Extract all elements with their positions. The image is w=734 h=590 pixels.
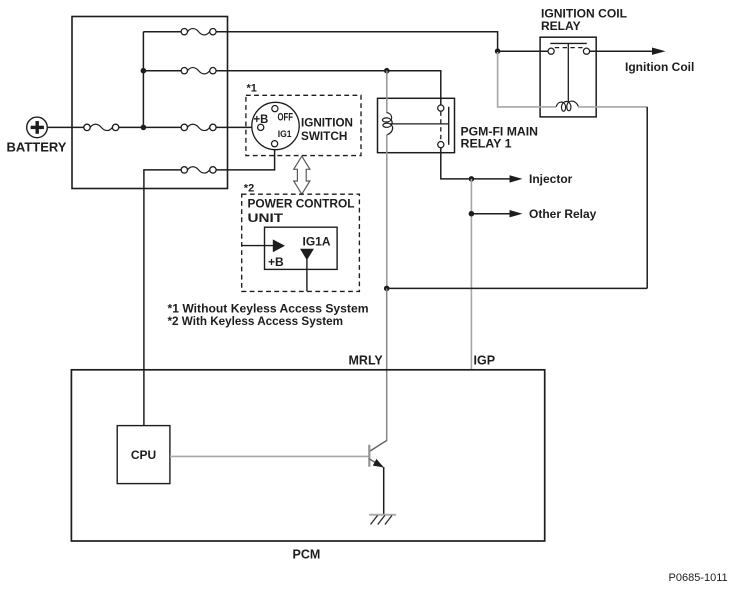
wire row4 left corner down to CPU: [144, 170, 181, 426]
terminal +B: [258, 124, 264, 130]
relay RY1 coil L1: [382, 113, 392, 135]
fuse F2 (battery row right): [181, 124, 216, 130]
relay RY2 contact right: [583, 48, 589, 54]
wire coil feed (gray) from junction into relay: [386, 71, 388, 113]
ground G1: [369, 515, 396, 525]
wire coil bottom to MRLY node (gray): [386, 134, 388, 288]
node MRLY junction: [384, 286, 390, 292]
wire battery to fuse box: [47, 126, 84, 128]
relay RY1 link coil to armature: [390, 123, 449, 125]
double arrow between ignition switch and power control unit: [294, 156, 310, 194]
node other relay junction: [469, 211, 475, 217]
wire MRLY down to transistor collector (gray): [386, 288, 388, 440]
battery B1: [27, 117, 48, 138]
wire battery row inside box: [119, 126, 181, 128]
svg-text:+B: +B: [268, 255, 284, 269]
svg-text:UNIT: UNIT: [248, 211, 284, 225]
fuse F3 (row 1): [181, 29, 216, 35]
relay RY1 contact bottom: [438, 142, 444, 148]
svg-text:POWER CONTROL: POWER CONTROL: [248, 197, 355, 211]
CPU box: [117, 426, 170, 484]
svg-text:RELAY: RELAY: [541, 19, 581, 33]
wire row2 to PGM-FI relay contact: [216, 71, 441, 106]
wire MRLY horizontal: [387, 287, 648, 289]
svg-text:PCM: PCM: [293, 548, 321, 562]
node injector junction: [469, 176, 475, 182]
wire relay output to ignition coil arrow: [589, 50, 653, 52]
fuse F4 (row 2): [181, 68, 216, 74]
wire relay output to injector node: [441, 148, 469, 179]
relay RY2 coil L2: [556, 101, 578, 111]
PGM-FI main relay RY1 box: [378, 98, 455, 152]
node PGM-FI relay feed junction: [384, 68, 390, 74]
arrow ignition coil: [652, 48, 666, 55]
svg-text:IG1A: IG1A: [303, 234, 331, 248]
node row2 junction: [141, 68, 147, 74]
wire coil feed (gray) down and right to coil: [498, 52, 556, 107]
wire +B input: [242, 245, 274, 247]
relay RY1 armature bar: [448, 107, 450, 145]
relay RY1 contact top: [438, 105, 444, 111]
svg-text:MRLY: MRLY: [349, 353, 384, 367]
wire battery row to ignition switch +B: [216, 126, 258, 128]
arrow other relay: [510, 210, 523, 217]
relay RY2 contact dashed line: [555, 47, 584, 49]
wire row4 from IG1 fuse column down to PCM CPU: [216, 147, 275, 170]
svg-text:BATTERY: BATTERY: [7, 140, 67, 155]
relay RY2 link armature to coil: [567, 43, 569, 101]
fuse box (under-hood fuse/relay box): [72, 17, 228, 189]
power control unit inner module U2: [265, 227, 338, 269]
PCM box: [71, 370, 544, 541]
terminal IG1: [272, 141, 278, 147]
svg-text:Other Relay: Other Relay: [529, 207, 597, 221]
svg-text:RELAY 1: RELAY 1: [461, 137, 512, 151]
power control unit dashed box *2: [242, 194, 360, 291]
svg-text:*2: *2: [244, 182, 254, 194]
node ignition relay feed junction: [495, 48, 501, 54]
svg-text:*2 With Keyless Access System: *2 With Keyless Access System: [168, 314, 344, 328]
wire emitter to ground: [383, 467, 385, 515]
svg-text:IGP: IGP: [474, 353, 496, 367]
svg-text:P0685-1011: P0685-1011: [669, 572, 728, 584]
fuse F5 (row 4, IG1 feed): [181, 167, 216, 173]
svg-text:+B: +B: [254, 114, 269, 126]
wire CPU to transistor base (gray): [170, 455, 369, 457]
transistor Q1 emitter arrowhead: [373, 459, 384, 468]
ignition switch dashed box *1: [246, 95, 361, 155]
wire arrow to injector: [471, 178, 510, 180]
arrow IG1A output (down triangle): [300, 249, 314, 261]
wire row1 to ignition coil relay contact: [216, 32, 498, 52]
svg-text:Ignition Coil: Ignition Coil: [625, 60, 694, 74]
wire bus column in fuse box: [142, 32, 144, 128]
wire arrow to other relay: [471, 213, 510, 215]
arrow injector: [510, 175, 523, 182]
relay RY2 armature bar: [550, 42, 587, 44]
relay RY2 contact left: [548, 48, 554, 54]
wire coil right (gray) to right bus: [578, 106, 647, 108]
svg-text:Injector: Injector: [529, 172, 573, 186]
svg-text:IGNITION: IGNITION: [301, 115, 353, 129]
svg-text:IG1: IG1: [278, 129, 292, 140]
wire right bus down: [646, 107, 648, 289]
transistor Q1 emitter: [369, 459, 383, 467]
relay RY1 contact dashed line: [440, 112, 442, 142]
terminal OFF: [272, 106, 278, 112]
wire IG1A down to box edge: [306, 259, 308, 291]
wire row2 to fuse: [143, 70, 181, 72]
svg-text:SWITCH: SWITCH: [301, 129, 347, 143]
fuse F1 (battery row left): [84, 124, 119, 130]
ignition switch rotary body SW1: [252, 102, 299, 149]
transistor Q1 base bar: [368, 445, 370, 467]
wire row1 to fuse: [143, 31, 181, 33]
svg-text:CPU: CPU: [131, 448, 156, 462]
svg-text:*1: *1: [247, 83, 257, 95]
svg-text:OFF: OFF: [278, 112, 294, 124]
arrow +B input: [273, 239, 285, 252]
ignition coil relay RY2 box: [540, 37, 596, 117]
node battery-row junction: [141, 125, 147, 131]
wire junction to relay contact: [498, 50, 549, 52]
wire IGP line (gray): [470, 179, 472, 370]
